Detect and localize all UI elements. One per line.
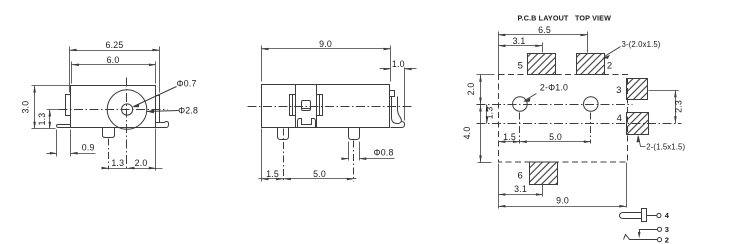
svg-text:6.5: 6.5 <box>538 25 551 35</box>
svg-text:9.0: 9.0 <box>556 196 569 206</box>
schematic line 3 <box>640 230 658 235</box>
side right ear <box>317 95 323 116</box>
svg-text:1.5: 1.5 <box>503 132 516 142</box>
svg-text:3-(2.0x1.5): 3-(2.0x1.5) <box>622 40 661 49</box>
side pin right <box>349 128 360 140</box>
side left ear <box>290 95 296 116</box>
side pin centerline right <box>353 141 355 182</box>
pcb centerline H2 <box>477 123 682 125</box>
pcb dashed outline <box>499 75 628 163</box>
dim 1.3 left <box>47 110 64 129</box>
svg-text:1.3: 1.3 <box>37 113 47 126</box>
svg-text:1.5: 1.5 <box>266 169 279 179</box>
svg-text:Φ2.8: Φ2.8 <box>178 106 198 116</box>
svg-text:P.C.B LAYOUT: P.C.B LAYOUT <box>518 14 569 23</box>
front body <box>71 86 156 128</box>
dim 1.3 pcb <box>486 105 488 124</box>
dim 6.25 <box>70 47 160 93</box>
svg-text:9.0: 9.0 <box>319 39 332 49</box>
side right tab <box>390 91 395 97</box>
dim 3.1 top <box>499 43 543 53</box>
dim 3.0 left <box>32 86 70 129</box>
schematic sleeve rect <box>642 209 647 222</box>
leader phi2.8 <box>147 111 179 112</box>
svg-text:2.3: 2.3 <box>674 100 684 113</box>
front left tab <box>66 95 71 116</box>
front right bracket plate <box>156 96 160 123</box>
side horizontal centerline <box>248 106 414 108</box>
dim 6.5 <box>499 32 588 75</box>
side pin centerline left <box>283 129 285 182</box>
svg-text:6: 6 <box>517 170 522 181</box>
svg-text:5.0: 5.0 <box>549 132 562 142</box>
svg-text:3.1: 3.1 <box>514 184 527 194</box>
front right bracket foot <box>156 122 169 128</box>
svg-text:2.0: 2.0 <box>135 158 148 168</box>
side body <box>262 85 390 128</box>
svg-text:2-Φ1.0: 2-Φ1.0 <box>540 83 568 93</box>
leader 2-(1.5x1.5) <box>639 137 646 147</box>
svg-text:4.0: 4.0 <box>462 127 472 140</box>
dim 6.0 <box>72 62 156 84</box>
svg-text:4: 4 <box>617 113 622 124</box>
hole right <box>584 97 599 112</box>
leader 2-phi1.0 <box>525 94 537 101</box>
dim 1.0 <box>380 68 417 121</box>
dim 9.0 bottom <box>499 163 627 208</box>
svg-text:3.1: 3.1 <box>513 36 526 46</box>
front bottom pin <box>103 128 115 138</box>
svg-text:TOP VIEW: TOP VIEW <box>575 14 611 23</box>
front pin centerline <box>108 139 110 170</box>
schematic terminal 2 circle <box>657 238 661 242</box>
svg-text:5.0: 5.0 <box>313 169 326 179</box>
pad 3 <box>627 79 648 100</box>
svg-text:0.9: 0.9 <box>82 143 95 153</box>
dim 9.0 top <box>262 46 391 82</box>
hole vertical centerlines <box>519 113 521 144</box>
svg-text:2-(1.5x1.5): 2-(1.5x1.5) <box>646 142 685 151</box>
side divider right <box>316 85 318 128</box>
svg-text:2: 2 <box>607 61 612 72</box>
side pin left <box>278 128 289 140</box>
dim 1.3 / 2.0 bottom <box>102 129 163 171</box>
svg-text:2: 2 <box>665 235 669 244</box>
pad 5 <box>528 54 556 75</box>
svg-text:3.0: 3.0 <box>21 101 31 114</box>
front left foot <box>57 125 71 128</box>
svg-text:6.0: 6.0 <box>107 55 120 65</box>
schematic pin pill <box>620 213 642 219</box>
svg-text:6.25: 6.25 <box>106 40 124 50</box>
svg-text:Φ0.8: Φ0.8 <box>374 148 394 158</box>
leader phi0.7 <box>134 87 177 107</box>
front horizontal centerline <box>59 109 168 111</box>
schematic terminal 4 circle <box>657 213 661 217</box>
svg-text:4: 4 <box>665 211 670 220</box>
side right hook inner <box>391 97 405 128</box>
svg-text:5: 5 <box>518 61 523 72</box>
svg-text:2.0: 2.0 <box>466 83 476 96</box>
svg-text:3: 3 <box>616 85 621 96</box>
side right hook outer <box>398 97 402 122</box>
dim phi0.8 <box>342 142 395 161</box>
side U channel <box>298 119 316 128</box>
front big circle (barrel) <box>107 90 147 130</box>
pad 6 <box>530 162 558 185</box>
side divider left <box>295 85 297 128</box>
dim 0.9 <box>47 130 96 157</box>
svg-text:1.0: 1.0 <box>392 59 405 69</box>
left dim column: 2.0 / 4.0 <box>477 75 495 163</box>
schematic terminal 3 circle <box>657 227 661 231</box>
hole left <box>513 97 528 112</box>
svg-text:1.3: 1.3 <box>485 107 495 120</box>
leader 3-(2.0x1.5) <box>605 47 621 57</box>
dim 1.5 / 5.0 bottom <box>259 129 357 182</box>
front small circle (center pin) <box>122 104 133 115</box>
dim 3.1 bottom <box>499 164 543 209</box>
front vertical centerline <box>126 78 128 169</box>
pad 2 <box>577 54 605 75</box>
side center square <box>302 101 311 111</box>
schematic line 2 with spring contact <box>624 235 658 240</box>
svg-text:1.3: 1.3 <box>111 158 124 168</box>
pad 4 <box>627 113 649 135</box>
pcb centerline H1 <box>477 104 633 106</box>
svg-text:3: 3 <box>665 225 669 234</box>
dim 1.5 / 5.0 pcb <box>499 141 591 143</box>
dim 2.3 <box>649 91 679 124</box>
schematic line to 4 <box>647 215 657 217</box>
svg-text:Φ0.7: Φ0.7 <box>177 79 197 89</box>
